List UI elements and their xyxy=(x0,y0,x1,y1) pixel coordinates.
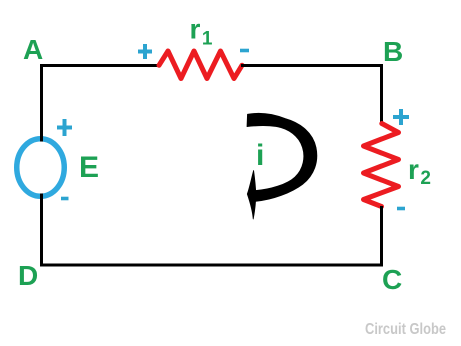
wire top-left segment A to r1 xyxy=(42,64,161,66)
svg-text:i: i xyxy=(256,139,264,172)
resistor r1 zigzag xyxy=(159,51,242,79)
svg-text:A: A xyxy=(23,34,43,65)
wire tick over source bottom xyxy=(40,194,43,201)
svg-text:B: B xyxy=(383,36,403,67)
wire tick over source top xyxy=(40,135,43,142)
current loop arrowhead xyxy=(247,171,256,220)
svg-text:r2: r2 xyxy=(408,154,431,189)
r2 plus polarity xyxy=(393,109,409,125)
wire top-right segment r1 to B xyxy=(241,64,382,66)
svg-text:r1: r1 xyxy=(190,14,213,50)
svg-text:E: E xyxy=(79,151,99,184)
wire left lower segment source to D xyxy=(40,193,43,267)
svg-text:C: C xyxy=(382,264,402,295)
wire right upper segment B to r2 xyxy=(380,64,383,124)
svg-text:D: D xyxy=(18,260,38,291)
source minus polarity xyxy=(61,197,69,201)
svg-text:Circuit Globe: Circuit Globe xyxy=(365,321,446,338)
wire left upper segment A to source xyxy=(40,64,43,141)
r1 plus polarity xyxy=(138,44,152,59)
wire bottom segment D to C xyxy=(40,264,383,267)
current loop arrow body xyxy=(247,113,317,201)
source plus polarity xyxy=(57,119,72,136)
voltage source E circle xyxy=(17,139,65,197)
r1 minus polarity xyxy=(240,49,249,53)
r2 minus polarity xyxy=(397,207,405,211)
resistor r2 zigzag xyxy=(364,124,399,207)
wire right lower segment r2 to C xyxy=(380,206,383,267)
